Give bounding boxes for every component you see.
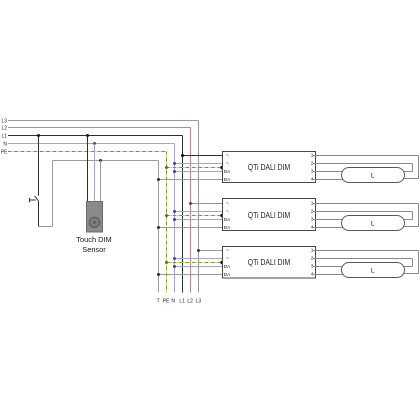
svg-text:L3: L3 — [196, 299, 202, 305]
svg-text:L: L — [371, 268, 375, 275]
svg-text:~: ~ — [226, 153, 229, 159]
svg-text:~: ~ — [226, 209, 229, 215]
svg-text:L1: L1 — [1, 134, 7, 140]
svg-text:~: ~ — [226, 161, 229, 167]
svg-text:N: N — [3, 142, 7, 148]
svg-text:L2: L2 — [187, 299, 193, 305]
svg-text:~: ~ — [226, 256, 229, 262]
svg-text:DA: DA — [224, 272, 231, 278]
svg-text:DA: DA — [224, 177, 231, 183]
svg-text:L: L — [371, 173, 375, 180]
svg-text:DA: DA — [224, 169, 231, 175]
svg-text:~: ~ — [226, 248, 229, 254]
svg-text:Touch DIM: Touch DIM — [76, 235, 111, 244]
svg-text:L1: L1 — [179, 299, 185, 305]
svg-text:QTi DALI DIM: QTi DALI DIM — [248, 211, 291, 220]
svg-text:~: ~ — [226, 201, 229, 207]
svg-text:QTi DALI DIM: QTi DALI DIM — [248, 258, 291, 267]
svg-text:DA: DA — [224, 217, 231, 223]
svg-text:DA: DA — [224, 264, 231, 270]
svg-text:DA: DA — [224, 225, 231, 231]
svg-text:L2: L2 — [1, 126, 7, 132]
svg-text:L: L — [371, 221, 375, 228]
svg-text:T: T — [157, 299, 160, 305]
svg-text:PE: PE — [1, 150, 8, 156]
svg-text:QTi DALI DIM: QTi DALI DIM — [248, 163, 291, 172]
svg-text:PE: PE — [163, 299, 170, 305]
svg-text:Sensor: Sensor — [82, 245, 106, 254]
svg-text:N: N — [171, 299, 175, 305]
svg-text:L3: L3 — [1, 119, 7, 125]
